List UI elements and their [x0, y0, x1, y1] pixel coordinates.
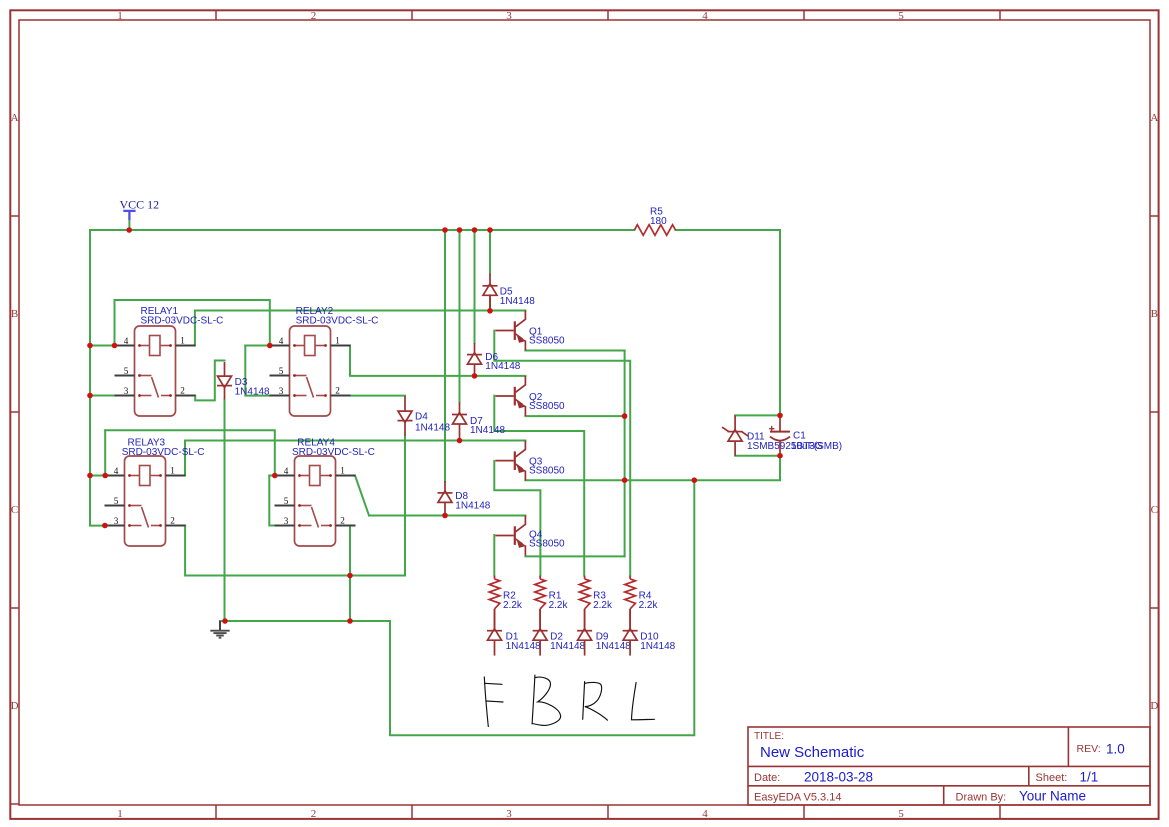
junction RELAY4 pin4 [272, 473, 278, 479]
junction D6 cathode node [472, 373, 478, 379]
wire RELAY3 pin4 to VCC vertical [90, 475, 105, 477]
junction bus D8 branch [442, 227, 448, 233]
svg-text:3: 3 [279, 386, 284, 396]
resistor R2 2.2k [494, 576, 496, 579]
svg-text:1/1: 1/1 [1080, 769, 1099, 784]
capacitor C1 10uF(SMB) [769, 415, 790, 455]
svg-text:1: 1 [170, 465, 175, 475]
wire RELAY1 pin 4 to VCC vertical [90, 345, 115, 347]
junction bus D5 branch [487, 227, 493, 233]
svg-text:5: 5 [124, 366, 129, 376]
svg-text:D4: D4 [415, 412, 428, 423]
wire RELAY1 pin1 up to D5 node and Q1 collector [195, 311, 526, 346]
junction RELAY1 pin4 bridge [112, 343, 118, 349]
svg-text:2: 2 [335, 385, 340, 395]
svg-text:1: 1 [340, 465, 345, 475]
wire D3 cathode down to ground node [224, 400, 226, 622]
svg-text:1: 1 [335, 335, 340, 345]
svg-text:4: 4 [279, 336, 284, 346]
svg-text:4: 4 [124, 336, 129, 346]
svg-text:B: B [11, 308, 18, 320]
junction D5 cathode node [487, 308, 493, 314]
svg-text:5: 5 [284, 496, 289, 506]
wire RELAY1 pin 3 to VCC vertical [90, 395, 115, 397]
wire C1 D11 top link [735, 414, 780, 416]
svg-text:2: 2 [340, 515, 345, 525]
svg-text:5: 5 [279, 366, 284, 376]
svg-text:3: 3 [506, 808, 512, 820]
title block [748, 727, 1150, 805]
relay RELAY4 SRD-03VDC-SL-C [275, 438, 375, 547]
svg-text:1: 1 [117, 808, 123, 820]
svg-text:1: 1 [180, 335, 185, 345]
svg-text:2: 2 [311, 808, 317, 820]
freehand letter B [532, 675, 535, 724]
svg-text:2: 2 [311, 10, 317, 22]
svg-text:3: 3 [124, 386, 129, 396]
junction C1 negative node [777, 453, 783, 459]
wire bus to D8 anode [444, 230, 446, 481]
svg-text:VCC 12: VCC 12 [120, 198, 160, 212]
svg-text:Your Name: Your Name [1019, 789, 1086, 804]
junction Q3 emitter node [622, 477, 628, 483]
wire ground bus loop [220, 480, 694, 735]
diode D6 1N4148 [467, 343, 482, 376]
border column ticks bottom [215, 805, 217, 819]
wire bridge RELAY1 pin4 to RELAY2 pin4 [115, 300, 270, 346]
wire Q2 base to R3 [494, 396, 584, 576]
svg-text:Drawn By:: Drawn By: [956, 791, 1007, 803]
wire RELAY1 pin2 to D3 anode [195, 361, 224, 401]
wire RELAY4 pin1 to D8 node and Q4 collector [369, 515, 525, 517]
junction D8 cathode node [442, 513, 448, 519]
relay RELAY3 SRD-03VDC-SL-C [105, 438, 205, 547]
wire Q4 emitter row [525, 555, 624, 557]
wire RELAY3 pin2 down along net row to D4 [185, 526, 405, 576]
svg-text:3: 3 [506, 10, 512, 22]
wire bus down right side to C1 positive [779, 230, 781, 415]
wire bus to D7 anode [459, 230, 461, 403]
svg-text:180: 180 [650, 216, 667, 227]
svg-text:SS8050: SS8050 [529, 466, 565, 477]
diode D3 1N4148 [217, 362, 232, 400]
relay RELAY1 SRD-03VDC-SL-C [115, 306, 224, 416]
svg-text:1N4148: 1N4148 [500, 296, 535, 307]
ground symbol [210, 621, 229, 638]
svg-text:2.2k: 2.2k [639, 600, 659, 611]
junction bus D7 branch [457, 227, 463, 233]
svg-text:A: A [1150, 112, 1158, 124]
svg-text:1N4148: 1N4148 [455, 500, 490, 511]
freehand letter L [632, 683, 655, 720]
border row ticks left [10, 215, 19, 217]
wire C1 D11 bottom link [735, 455, 780, 457]
svg-text:EasyEDA V5.3.14: EasyEDA V5.3.14 [754, 791, 841, 803]
border row ticks right [1150, 215, 1159, 217]
svg-text:1N4148: 1N4148 [550, 641, 585, 652]
transistor Q2 SS8050 [495, 376, 526, 416]
junction Q2 emitter node [622, 413, 628, 419]
wire Q3 emitter row to C1 negative [525, 456, 780, 481]
diode D1 1N4148 [487, 609, 502, 656]
diode D5 1N4148 [483, 274, 498, 311]
svg-text:5: 5 [114, 496, 119, 506]
diode D10 1N4148 [623, 609, 638, 656]
wire D5 cathode stub [489, 295, 491, 310]
svg-text:D: D [11, 700, 19, 712]
svg-text:3: 3 [114, 516, 119, 526]
power flag VCC 12 [123, 211, 135, 220]
relay RELAY2 SRD-03VDC-SL-C [270, 306, 379, 416]
svg-text:A: A [11, 112, 19, 124]
border column ticks top [215, 10, 217, 20]
svg-text:C: C [1151, 504, 1158, 516]
junction bus D6 branch [472, 227, 478, 233]
wire RELAY4 pin1 diagonal [355, 476, 369, 516]
svg-text:1N4148: 1N4148 [640, 641, 675, 652]
wire bus to D6 anode [474, 230, 476, 343]
wire D4 cathode down to net row [404, 436, 406, 576]
svg-text:1N4148: 1N4148 [485, 361, 520, 372]
junction VCC vertical RELAY1 pin4 [87, 343, 93, 349]
svg-text:SRD-03VDC-SL-C: SRD-03VDC-SL-C [296, 316, 379, 327]
svg-text:10uF(SMB): 10uF(SMB) [791, 441, 842, 452]
junction D7 cathode node [457, 438, 463, 444]
svg-text:1N4148: 1N4148 [415, 422, 450, 433]
svg-text:5: 5 [898, 808, 904, 820]
freehand letter F [484, 677, 488, 727]
svg-text:2.2k: 2.2k [549, 600, 569, 611]
transistor Q3 SS8050 [495, 441, 526, 481]
resistor R4 2.2k [629, 576, 631, 579]
diode D2 1N4148 [533, 609, 548, 656]
wire Q1 base to R4 [494, 331, 630, 576]
svg-text:Sheet:: Sheet: [1036, 772, 1068, 784]
svg-text:C: C [11, 504, 18, 516]
wire RELAY3 pin4 up to bridge [104, 430, 106, 475]
svg-text:SS8050: SS8050 [529, 335, 565, 346]
svg-text:New Schematic: New Schematic [760, 744, 865, 761]
svg-text:1N4148: 1N4148 [470, 425, 505, 436]
diode D4 1N4148 [398, 396, 413, 435]
wire VCC bus top right of R5 [676, 229, 781, 231]
wire VCC left vertical down to RELAY3 pin 3 [90, 230, 105, 526]
diode D9 1N4148 [577, 609, 592, 656]
wire RELAY2 pin2 to D4 anode [351, 395, 406, 397]
svg-text:C1: C1 [793, 431, 806, 442]
junction VCC on bus [126, 227, 132, 233]
wire RELAY4 pin4 stub link [269, 475, 275, 477]
svg-text:B: B [1151, 308, 1158, 320]
svg-text:2: 2 [170, 515, 175, 525]
wire RELAY4 pin4 to pin3 U loop [269, 476, 274, 526]
junction C1 positive node [777, 413, 783, 419]
svg-text:5: 5 [898, 10, 904, 22]
freehand letter R [583, 682, 585, 720]
resistor R1 2.2k [539, 576, 541, 579]
transistor Q4 SS8050 [495, 516, 526, 556]
svg-text:Date:: Date: [754, 772, 780, 784]
wire bridge RELAY3 pin4 to RELAY4 pin4 [105, 430, 275, 475]
svg-text:SS8050: SS8050 [529, 539, 565, 550]
wire VCC bus top left of R5 [90, 229, 634, 231]
junction ground symbol node [222, 618, 228, 624]
diode D11 1SMB5925BT3G [722, 415, 748, 455]
wire RELAY2 pin4 stub link [245, 345, 269, 347]
svg-text:1.0: 1.0 [1106, 741, 1125, 756]
wire RELAY3 pin1 up to D7 node and Q3 collector [185, 441, 525, 476]
svg-text:4: 4 [284, 466, 289, 476]
svg-text:1N4148: 1N4148 [596, 641, 631, 652]
wire Q3 base to R1 [494, 461, 540, 576]
svg-text:SS8050: SS8050 [529, 401, 565, 412]
svg-text:SRD-03VDC-SL-C: SRD-03VDC-SL-C [141, 316, 224, 327]
svg-text:4: 4 [702, 10, 708, 22]
junction RELAY3 pin4 bridge [102, 473, 108, 479]
junction RELAY4 pin2 net row [347, 573, 353, 579]
wire bus to D5 anode [489, 230, 491, 274]
wire RELAY2 pin4 to pin3 U loop [245, 346, 269, 396]
wire emitters common vertical [624, 351, 626, 557]
resistor R5 180 [634, 225, 675, 236]
junction VCC vertical RELAY1 pin3 [87, 393, 93, 399]
junction RELAY2 pin4 [267, 343, 273, 349]
svg-text:1N4148: 1N4148 [506, 641, 541, 652]
svg-text:4: 4 [702, 808, 708, 820]
svg-text:4: 4 [114, 466, 119, 476]
svg-text:2: 2 [180, 385, 185, 395]
svg-text:REV:: REV: [1077, 743, 1101, 755]
svg-text:2018-03-28: 2018-03-28 [804, 769, 873, 784]
junction RELAY3 pin3 [102, 523, 108, 529]
junction RELAY4 pin2 ground bus [347, 618, 353, 624]
junction ground riser node [692, 477, 698, 483]
wire RELAY4 pin2 down to ground bus [349, 526, 351, 622]
wire Q2 emitter row [525, 415, 624, 417]
junction VCC vertical RELAY3 pin4 [87, 473, 93, 479]
svg-text:1: 1 [117, 10, 123, 22]
svg-text:2.2k: 2.2k [503, 600, 523, 611]
svg-text:TITLE:: TITLE: [754, 731, 784, 742]
svg-text:1N4148: 1N4148 [235, 387, 270, 398]
diode D8 1N4148 [438, 481, 453, 516]
wire Q4 base to R2 [493, 535, 495, 576]
diode D7 1N4148 [452, 403, 467, 441]
svg-text:3: 3 [284, 516, 289, 526]
svg-text:D: D [1150, 700, 1158, 712]
transistor Q1 SS8050 [495, 311, 526, 351]
svg-text:2.2k: 2.2k [593, 600, 613, 611]
resistor R3 2.2k [584, 576, 586, 579]
wire RELAY2 pin1 down to D6 node and Q2 collector [350, 346, 525, 376]
wire Q1 emitter row [525, 350, 624, 352]
